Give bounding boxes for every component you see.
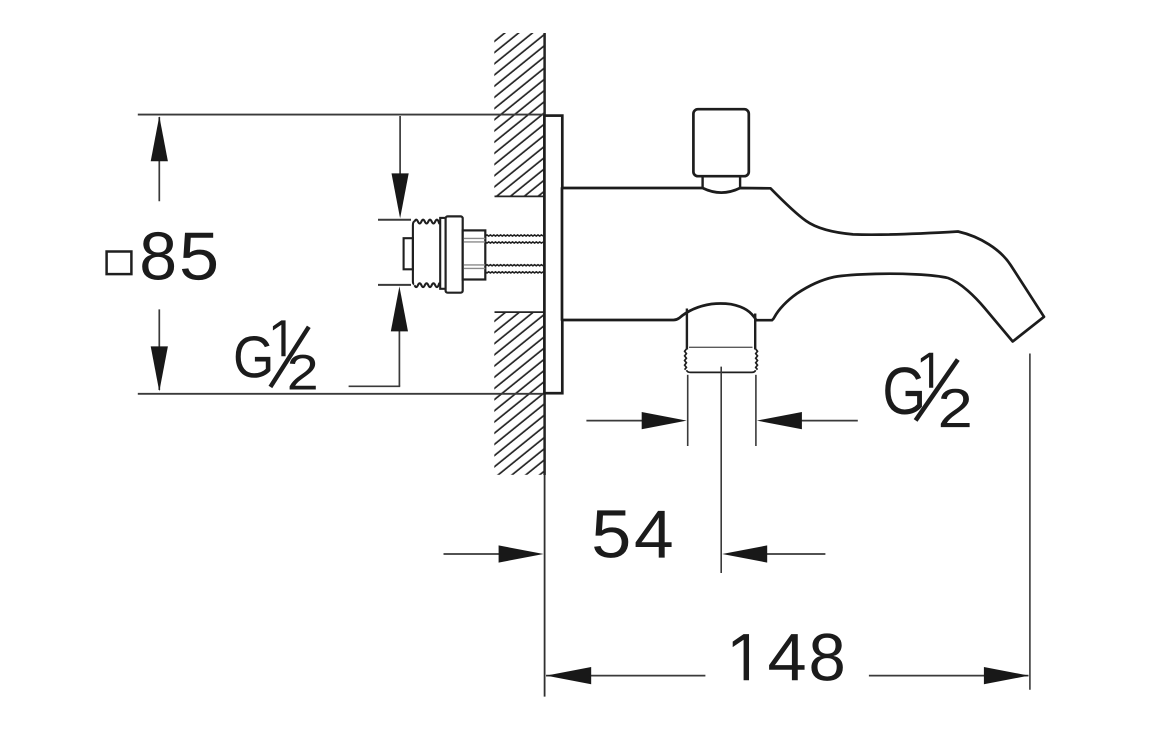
arrow right to port thread: [586, 420, 660, 422]
arrow down to valve thread top: [399, 116, 401, 180]
valve knurled cap: [413, 220, 440, 287]
label G1/2 (wall valve): [236, 336, 271, 378]
rod shadows in collar: [464, 238, 485, 268]
wall hatching upper: [494, 33, 545, 196]
arrow left to port thread: [782, 420, 858, 422]
wall face line: [543, 33, 546, 475]
dimension 54 arrow left: [750, 553, 825, 555]
port right extension line: [755, 375, 757, 446]
dimension 54 arrow right: [444, 553, 511, 555]
tick at valve thread top: [378, 219, 411, 221]
dimension line 148 right segment: [869, 675, 1029, 677]
port left extension line: [687, 375, 689, 446]
wall face extension line (below wall): [544, 475, 546, 697]
valve collar: [463, 230, 486, 279]
diverter knob neck: [703, 176, 741, 189]
diverter knob: [693, 109, 748, 176]
extension line top (85): [138, 114, 545, 116]
square symbol of dimension 85: [107, 252, 132, 275]
shower hose port: [687, 309, 755, 350]
tick at valve thread bottom: [378, 284, 411, 286]
arrow right end 148: [984, 667, 1029, 684]
text 85: [142, 232, 174, 280]
escutcheon wall plate: [544, 116, 562, 394]
arrow left end 148: [546, 667, 591, 684]
dimension line 148 left segment: [546, 675, 705, 677]
threaded rod upper: [485, 235, 543, 243]
extension line bottom (85): [138, 393, 545, 395]
leader line from G1/2 label: [349, 385, 401, 387]
wall opening bottom edge: [495, 311, 544, 313]
dimension line 85 upper segment: [158, 117, 160, 201]
spout tip extension line: [1029, 354, 1031, 690]
arrow down (85 bottom): [151, 346, 168, 391]
port center line: [720, 367, 722, 573]
label G1/2 (spout outlet): [885, 367, 922, 414]
threaded rod lower: [485, 265, 543, 273]
valve flange: [446, 216, 463, 292]
dimension line 85 lower segment: [158, 309, 160, 390]
valve mid ring: [440, 218, 445, 289]
valve stem: [404, 238, 413, 269]
arrow up to valve thread bottom: [398, 330, 400, 386]
wall opening top edge: [495, 195, 544, 197]
faucet body with spout: [562, 188, 1044, 342]
wall hatching lower: [494, 312, 545, 475]
arrow up (85 top): [151, 116, 168, 161]
text 54: [594, 510, 628, 557]
text 148: [733, 634, 749, 680]
